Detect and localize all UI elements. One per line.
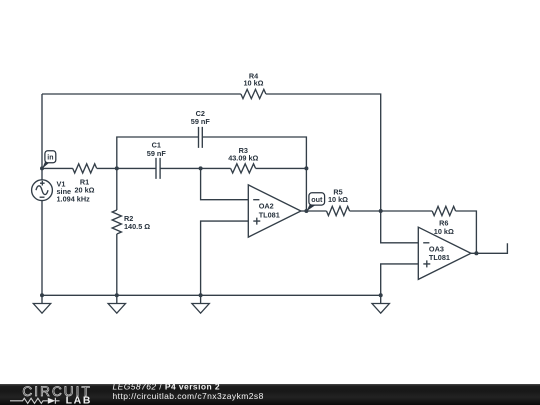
resistor R2 (112, 210, 150, 234)
svg-text:out: out (311, 195, 323, 204)
wire in node up to top rail (41, 94, 43, 168)
resistor R5 (327, 187, 350, 215)
wire V1 bottom lead to ground rail (41, 201, 43, 296)
junction ground rail OA2 (199, 293, 203, 297)
svg-text:10 kΩ: 10 kΩ (328, 195, 348, 204)
wire node C to R3 (201, 167, 231, 169)
svg-text:TL081: TL081 (259, 210, 280, 219)
op-amp OA3 (418, 227, 471, 279)
svg-text:TL081: TL081 (429, 253, 450, 262)
footer bar (0, 384, 540, 405)
junction node C (C1/R3/OA2 inv) (199, 166, 203, 170)
svg-text:in: in (47, 155, 53, 162)
wire R2 top lead (116, 168, 118, 210)
svg-text:140.5 Ω: 140.5 Ω (124, 222, 150, 231)
wire R3 to node D (256, 167, 307, 169)
resistor R1 (73, 164, 97, 195)
junction ground rail OA3 (379, 293, 383, 297)
CircuitLab logo (10, 384, 92, 405)
junction node B (R1/R2/C2) (115, 166, 119, 170)
capacitor C1 (147, 140, 167, 179)
junction OA3 output node (474, 251, 478, 255)
capacitor C2 (191, 109, 211, 148)
wire node A down to OA3 inverting input (381, 211, 419, 243)
junction in node (40, 166, 44, 170)
wire node B to C1 (117, 167, 156, 169)
wire ground rail (42, 294, 381, 296)
svg-text:59 nF: 59 nF (147, 149, 167, 158)
wire node A to R6 (381, 210, 433, 212)
svg-text:10 kΩ: 10 kΩ (434, 227, 454, 236)
wire in node to R1 (42, 167, 73, 169)
wire OA3 output to terminal stub (471, 243, 508, 253)
wire V1 top lead (41, 168, 43, 179)
wire OA2 output stub (301, 210, 307, 212)
op-amp OA2 (248, 185, 301, 237)
svg-text:1.094 kHz: 1.094 kHz (57, 194, 91, 203)
wire OA2 non-inverting input to ground rail (201, 221, 249, 295)
wire C1 to node C (160, 167, 201, 169)
node in flag (42, 151, 56, 169)
wire R4 to right corner down to node A (266, 94, 381, 211)
wire OA3 non-inverting input to ground rail (381, 264, 419, 295)
wire top rail to R4 (42, 93, 241, 95)
wire node B up across to C2 (117, 137, 199, 168)
junction ground rail R2 (115, 293, 119, 297)
wire R6 down to OA3 output node (456, 211, 477, 253)
svg-text:59 nF: 59 nF (191, 117, 211, 126)
resistor R6 (432, 206, 455, 236)
svg-text:10 kΩ: 10 kΩ (243, 79, 263, 88)
resistor R4 (241, 71, 266, 98)
voltage source V1 (32, 180, 91, 204)
ground symbol 2 (108, 295, 125, 313)
wire R1 to node B (97, 167, 117, 169)
wire node C to OA2 inverting input (201, 168, 249, 199)
wire C2 to node D (202, 137, 306, 168)
ground symbol 1 (33, 295, 50, 313)
svg-text:43.09 kΩ: 43.09 kΩ (228, 153, 258, 162)
wire R2 bottom lead to ground rail (116, 234, 118, 295)
svg-text:LAB: LAB (66, 395, 92, 405)
node out flag (306, 193, 324, 211)
resistor R3 (228, 146, 258, 173)
junction out node (304, 209, 308, 213)
junction node A (R5/R6/R4) (379, 209, 383, 213)
junction node D (R3/C2/OA2 out) (304, 166, 308, 170)
svg-text:http://circuitlab.com/c7nx3zay: http://circuitlab.com/c7nx3zaykm2s8 (113, 391, 264, 401)
ground symbol 4 (372, 295, 389, 313)
ground symbol 3 (192, 295, 209, 313)
svg-text:OA2: OA2 (259, 202, 274, 211)
wire out node to R5 (306, 210, 326, 212)
svg-text:LEG58762 / P4 version 2: LEG58762 / P4 version 2 (113, 382, 221, 392)
wire out node up to node D (305, 168, 307, 211)
wire R5 to node A (350, 210, 381, 212)
svg-text:OA3: OA3 (429, 244, 444, 253)
junction ground rail V1 (40, 293, 44, 297)
